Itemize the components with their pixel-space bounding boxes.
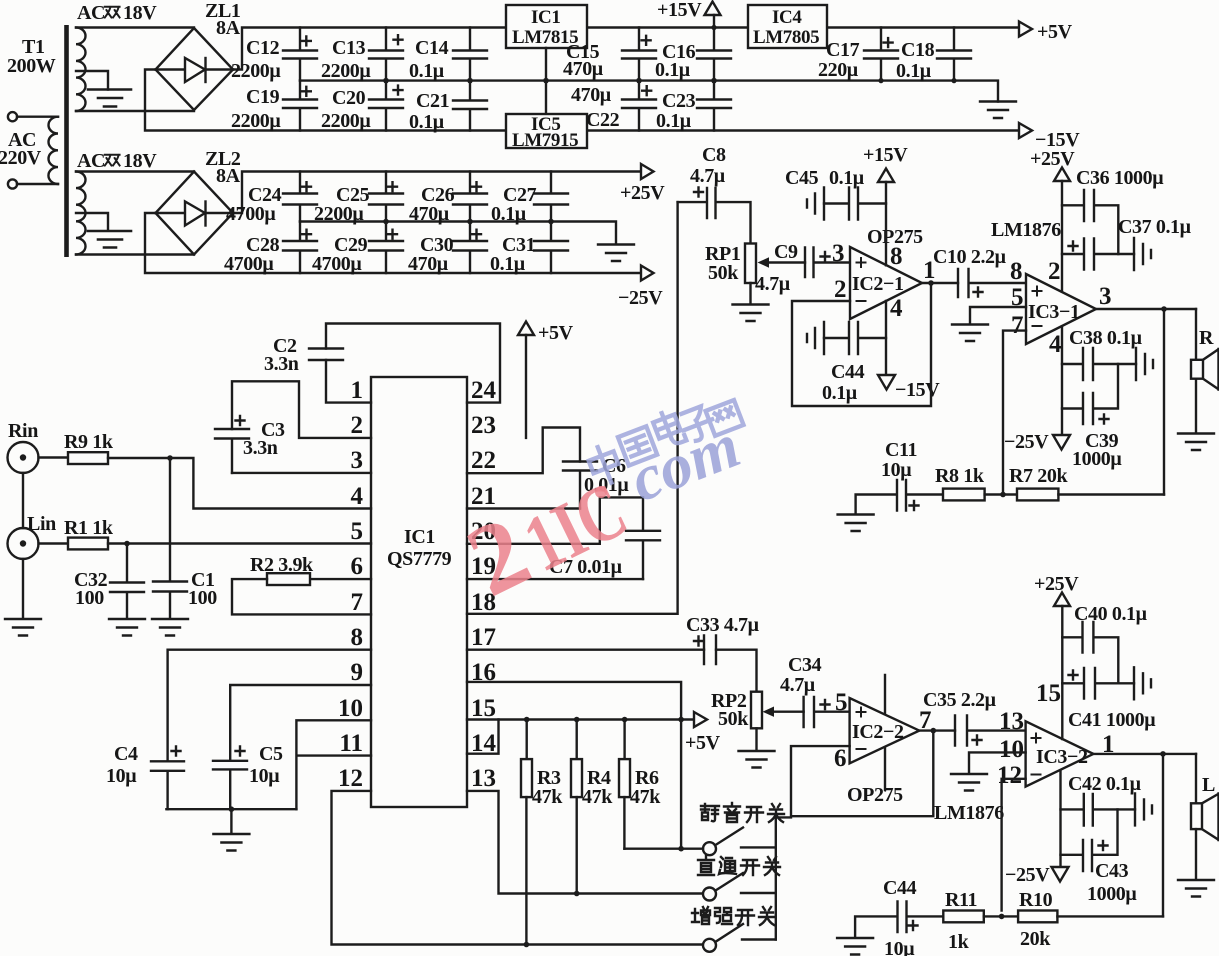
wire pin10 pin11 riser bbox=[296, 720, 371, 809]
svg-text:470μ: 470μ bbox=[563, 58, 604, 80]
svg-text:C41 1000μ: C41 1000μ bbox=[1068, 709, 1156, 731]
svg-text:C17: C17 bbox=[826, 39, 860, 61]
svg-text:R1 1k: R1 1k bbox=[64, 517, 114, 539]
resistor R11 bbox=[943, 889, 984, 953]
capacitor C44 bottom bbox=[855, 877, 943, 956]
svg-text:C38 0.1μ: C38 0.1μ bbox=[1069, 327, 1143, 349]
wire pin8 to C4 bbox=[168, 650, 371, 762]
op-amp IC3-1 LM1876 bbox=[991, 219, 1112, 358]
svg-text:10: 10 bbox=[999, 736, 1024, 763]
IC4 LM7805 bbox=[748, 5, 827, 48]
svg-text:100: 100 bbox=[75, 587, 104, 609]
op-amp U-IC1 QS7779 bbox=[371, 377, 467, 807]
svg-text:11: 11 bbox=[339, 730, 363, 757]
svg-text:12: 12 bbox=[338, 765, 363, 792]
transformer secondary winding 2 bbox=[76, 150, 157, 255]
capacitor C10 bbox=[933, 246, 1026, 297]
svg-text:1k: 1k bbox=[948, 931, 970, 953]
wire pin5 ground IC3-1 bbox=[970, 307, 1026, 324]
capacitor C1 bbox=[153, 458, 217, 619]
svg-text:4.7μ: 4.7μ bbox=[755, 273, 791, 295]
capacitor C28 bbox=[224, 222, 317, 276]
ground center-tap 2 bbox=[76, 213, 131, 248]
pin numbers QS7779 right bbox=[471, 377, 497, 792]
switch S2 direct bbox=[703, 873, 776, 901]
op-amp IC3-2 LM1876 bbox=[934, 708, 1115, 824]
svg-text:3: 3 bbox=[351, 447, 364, 474]
svg-text:C23: C23 bbox=[662, 90, 696, 112]
svg-text:2: 2 bbox=[834, 276, 847, 303]
wire pin1 loop to pin24 bbox=[326, 324, 500, 403]
wire IC2-1 output bbox=[922, 280, 958, 286]
svg-text:−25V: −25V bbox=[1005, 864, 1050, 886]
wire output feedback riser bbox=[1163, 309, 1165, 495]
svg-text:10μ: 10μ bbox=[884, 938, 915, 956]
svg-text:IC2−2: IC2−2 bbox=[852, 721, 904, 743]
svg-text:C18: C18 bbox=[901, 39, 935, 61]
ground center-tap 1 bbox=[76, 71, 131, 107]
power +25V IC3-1 bbox=[1030, 148, 1075, 292]
svg-text:C44: C44 bbox=[831, 361, 865, 383]
capacitor C25 bbox=[314, 172, 403, 226]
capacitor C45 bbox=[785, 167, 886, 220]
svg-text:+15V: +15V bbox=[863, 144, 908, 166]
resistor R10 bbox=[1018, 889, 1057, 950]
svg-text:C12: C12 bbox=[246, 37, 280, 59]
speaker L bbox=[1191, 754, 1219, 879]
capacitor C15 bbox=[563, 28, 656, 81]
capacitor C26 bbox=[409, 172, 487, 226]
ground speaker L bbox=[1178, 880, 1214, 897]
svg-text:0.1μ: 0.1μ bbox=[409, 111, 445, 133]
resistor R3 bbox=[521, 720, 563, 945]
svg-text:220V: 220V bbox=[0, 147, 42, 169]
svg-text:8A: 8A bbox=[216, 165, 241, 187]
svg-text:15: 15 bbox=[471, 695, 496, 722]
power -25V IC3-1 bbox=[1004, 327, 1070, 454]
wire ZL2 - output rail bbox=[145, 213, 641, 273]
ground C11 bbox=[838, 515, 874, 532]
svg-text:+25V: +25V bbox=[1034, 573, 1079, 595]
svg-text:C33 4.7μ: C33 4.7μ bbox=[686, 614, 760, 636]
wire ZL1 + output to top rail bbox=[233, 28, 1019, 70]
wire IC2-2 output bbox=[919, 728, 955, 734]
svg-text:LM7915: LM7915 bbox=[512, 130, 578, 151]
power -25V IC3-2 bbox=[1005, 771, 1069, 886]
svg-text:C9: C9 bbox=[774, 241, 798, 263]
wire R2 to pin7 bbox=[232, 579, 371, 614]
wire R7 to output riser bbox=[1058, 493, 1164, 495]
capacitor C19 bbox=[231, 81, 317, 132]
svg-text:OP275: OP275 bbox=[867, 226, 923, 248]
svg-text:2200μ: 2200μ bbox=[321, 60, 371, 82]
watermark dot bbox=[595, 486, 607, 498]
resistor R1 bbox=[64, 517, 114, 549]
power -15V op-amp bbox=[878, 301, 940, 401]
wire riser to mute line bbox=[680, 720, 682, 849]
wire pin18 riser to C8 bbox=[467, 202, 678, 614]
potentiometer RP1 bbox=[705, 243, 805, 304]
capacitor C16 bbox=[655, 15, 731, 81]
svg-text:C20: C20 bbox=[332, 87, 366, 109]
svg-text:R9 1k: R9 1k bbox=[64, 431, 114, 453]
svg-text:−25V: −25V bbox=[618, 287, 663, 309]
ground mid rail right bbox=[980, 102, 1016, 119]
label boost switch bbox=[692, 907, 775, 925]
power +15V symbol bbox=[657, 0, 721, 21]
svg-text:13: 13 bbox=[471, 765, 496, 792]
label mute switch bbox=[701, 803, 784, 822]
svg-text:C45: C45 bbox=[785, 167, 819, 189]
svg-text:0.1μ: 0.1μ bbox=[656, 110, 692, 132]
svg-text:LM1876: LM1876 bbox=[934, 802, 1004, 824]
svg-text:1000μ: 1000μ bbox=[1072, 448, 1122, 470]
svg-text:IC1: IC1 bbox=[531, 7, 560, 28]
IC1 LM7815 bbox=[506, 5, 587, 114]
svg-text:0.1μ: 0.1μ bbox=[490, 253, 526, 275]
pin numbers QS7779 left bbox=[338, 377, 364, 792]
svg-text:4700μ: 4700μ bbox=[312, 253, 362, 275]
capacitor C6 bbox=[563, 455, 629, 509]
svg-text:IC1: IC1 bbox=[404, 526, 435, 548]
svg-text:QS7779: QS7779 bbox=[387, 548, 452, 570]
svg-text:LM1876: LM1876 bbox=[991, 219, 1061, 241]
capacitor C35 bbox=[923, 689, 1026, 746]
svg-text:C5: C5 bbox=[259, 743, 283, 765]
svg-text:+25V: +25V bbox=[1030, 148, 1075, 170]
wire pin14 stub bbox=[467, 720, 499, 754]
capacitor C30 bbox=[408, 222, 487, 276]
resistor R2 bbox=[250, 554, 371, 585]
ground mid rail 2 bbox=[598, 245, 634, 262]
capacitor C31 bbox=[490, 222, 568, 276]
node Lin jack bbox=[8, 473, 69, 619]
capacitor C33 bbox=[686, 614, 760, 664]
svg-text:10μ: 10μ bbox=[106, 765, 137, 787]
svg-text:6: 6 bbox=[351, 553, 364, 580]
svg-text:470μ: 470μ bbox=[409, 203, 450, 225]
svg-text:8A: 8A bbox=[216, 17, 241, 39]
capacitor C17 bbox=[818, 28, 898, 82]
svg-text:2: 2 bbox=[1048, 258, 1061, 285]
wire pin12 feedback riser bbox=[1002, 779, 1026, 911]
svg-text:22: 22 bbox=[471, 447, 496, 474]
svg-text:6: 6 bbox=[834, 745, 847, 772]
capacitor C38 bbox=[1062, 327, 1153, 380]
node +5V arrow bbox=[1019, 21, 1073, 43]
node Rin jack bbox=[8, 420, 69, 473]
resistor R4 bbox=[571, 720, 613, 894]
svg-text:200W: 200W bbox=[7, 55, 56, 77]
svg-text:18V: 18V bbox=[123, 2, 157, 24]
svg-text:IC2−1: IC2−1 bbox=[852, 273, 904, 295]
svg-text:100: 100 bbox=[188, 587, 217, 609]
capacitor C20 bbox=[321, 81, 403, 132]
svg-text:C43: C43 bbox=[1095, 860, 1129, 882]
svg-text:R7 20k: R7 20k bbox=[1009, 465, 1068, 487]
wire R11 R10 node bbox=[984, 914, 1018, 920]
svg-text:10: 10 bbox=[338, 695, 363, 722]
svg-text:C44: C44 bbox=[883, 877, 917, 899]
svg-text:0.1μ: 0.1μ bbox=[491, 203, 527, 225]
resistor R8 bbox=[935, 465, 985, 500]
svg-text:C42 0.1μ: C42 0.1μ bbox=[1068, 773, 1142, 795]
svg-text:+25V: +25V bbox=[620, 182, 665, 204]
wire ZL2 + output rail bbox=[233, 172, 641, 214]
capacitor C39 bbox=[1062, 364, 1122, 470]
capacitor C2 bbox=[264, 335, 343, 375]
capacitor C41 bbox=[1062, 667, 1156, 731]
wire C4 C5 ground bus bbox=[166, 806, 296, 833]
svg-text:3: 3 bbox=[1099, 283, 1112, 310]
capacitor C29 bbox=[312, 222, 403, 276]
node -25V arrow bbox=[618, 266, 663, 310]
wire R8 R7 node bbox=[985, 492, 1017, 498]
wire pin2 to C3 bbox=[232, 381, 371, 438]
svg-text:50k: 50k bbox=[708, 262, 739, 284]
op-amp IC2-2 bbox=[834, 675, 932, 806]
transformer T1 bbox=[0, 25, 69, 257]
wire pin17 to C33 bbox=[467, 649, 704, 651]
switch S3 boost bbox=[703, 924, 776, 952]
svg-text:20k: 20k bbox=[1020, 928, 1051, 950]
capacitor C3 bbox=[215, 416, 285, 473]
svg-text:0.1μ: 0.1μ bbox=[409, 60, 445, 82]
svg-text:13: 13 bbox=[999, 708, 1024, 735]
svg-text:15: 15 bbox=[1036, 680, 1061, 707]
svg-text:+15V: +15V bbox=[657, 0, 702, 21]
svg-text:5: 5 bbox=[835, 689, 848, 716]
svg-text:+5V: +5V bbox=[538, 322, 574, 344]
svg-text:AC: AC bbox=[77, 150, 105, 172]
wire pin7 feedback riser bbox=[1003, 331, 1026, 495]
svg-text:18V: 18V bbox=[123, 150, 157, 172]
ground C4 C5 bbox=[213, 834, 249, 851]
svg-text:C40 0.1μ: C40 0.1μ bbox=[1074, 603, 1148, 625]
bridge rectifier ZL1 bbox=[156, 0, 241, 110]
wire pin19 bbox=[467, 578, 643, 580]
capacitor C32 bbox=[74, 544, 144, 619]
ground C32 bbox=[109, 619, 145, 636]
node -15V arrow bbox=[1019, 123, 1080, 151]
svg-text:2200μ: 2200μ bbox=[231, 110, 281, 132]
svg-text:R10: R10 bbox=[1019, 889, 1053, 911]
power +15V op-amp bbox=[863, 144, 908, 265]
svg-text:1: 1 bbox=[351, 377, 364, 404]
capacitor C13 bbox=[321, 28, 403, 83]
node +25V arrow bbox=[620, 164, 665, 204]
ground input jacks bbox=[5, 619, 41, 636]
label direct switch bbox=[698, 856, 780, 875]
svg-text:2200μ: 2200μ bbox=[231, 60, 281, 82]
svg-text:47k: 47k bbox=[630, 786, 661, 808]
ground C44 bottom bbox=[837, 938, 873, 955]
svg-text:3.3n: 3.3n bbox=[243, 437, 278, 459]
wire IC3-2 output bbox=[1093, 751, 1196, 757]
wire C33 to RP2 bbox=[716, 650, 757, 692]
wire pin6 feedback IC2-2 bbox=[791, 731, 933, 817]
speaker R bbox=[1191, 309, 1219, 432]
wire pin10 ground IC3-2 bbox=[969, 752, 1026, 773]
svg-text:C4: C4 bbox=[114, 743, 138, 765]
ground RP1 bbox=[733, 305, 769, 322]
ground pin10 bbox=[951, 774, 987, 791]
ground C1 bbox=[152, 619, 188, 636]
capacitor C5 bbox=[213, 743, 283, 809]
svg-text:220μ: 220μ bbox=[818, 59, 859, 81]
svg-text:0.1μ: 0.1μ bbox=[829, 167, 865, 189]
wire pin21 bbox=[467, 507, 580, 509]
capacitor C36 bbox=[1062, 167, 1164, 254]
svg-text:C10 2.2μ: C10 2.2μ bbox=[933, 246, 1007, 268]
svg-text:5: 5 bbox=[351, 518, 364, 545]
wire pin20 to C7 bbox=[467, 497, 643, 543]
svg-text:R8 1k: R8 1k bbox=[935, 465, 985, 487]
svg-text:4.7μ: 4.7μ bbox=[780, 674, 816, 696]
svg-text:C34: C34 bbox=[788, 654, 822, 676]
svg-text:50k: 50k bbox=[718, 708, 749, 730]
capacitor C9 bbox=[755, 240, 850, 295]
wire output feedback riser 2 bbox=[1162, 754, 1164, 917]
svg-text:C8: C8 bbox=[702, 144, 726, 166]
transformer secondary winding 1 bbox=[76, 2, 157, 111]
wire R1 to pin5 bbox=[108, 541, 371, 547]
svg-text:1000μ: 1000μ bbox=[1087, 883, 1137, 905]
svg-text:4.7μ: 4.7μ bbox=[690, 165, 726, 187]
svg-text:C19: C19 bbox=[246, 86, 280, 108]
capacitor C21 bbox=[409, 81, 487, 133]
wire pin13 to direct switch bbox=[467, 791, 703, 896]
capacitor C14 bbox=[409, 28, 487, 83]
power +25V IC3-2 bbox=[1034, 573, 1079, 739]
wire secondary2 to bridge bbox=[76, 172, 194, 255]
resistor R9 bbox=[64, 431, 114, 464]
wire GND mid rail 2 bbox=[300, 219, 616, 244]
svg-text:2200μ: 2200μ bbox=[321, 110, 371, 132]
svg-text:+5V: +5V bbox=[685, 732, 721, 754]
watermark 21IC bbox=[451, 448, 643, 619]
svg-text:C37 0.1μ: C37 0.1μ bbox=[1118, 216, 1192, 238]
svg-text:10μ: 10μ bbox=[881, 459, 912, 481]
svg-text:Rin: Rin bbox=[8, 420, 38, 442]
svg-text:−15V: −15V bbox=[895, 379, 940, 401]
capacitor C18 bbox=[896, 28, 971, 83]
svg-text:4700μ: 4700μ bbox=[224, 253, 274, 275]
svg-text:2200μ: 2200μ bbox=[314, 203, 364, 225]
svg-text:23: 23 bbox=[471, 412, 496, 439]
wire switch riser to IC2-2 feedback bbox=[776, 817, 791, 939]
svg-text:3.3n: 3.3n bbox=[264, 353, 299, 375]
svg-text:L: L bbox=[1202, 774, 1215, 796]
svg-text:IC4: IC4 bbox=[772, 7, 802, 28]
svg-text:7: 7 bbox=[351, 589, 364, 616]
svg-text:C21: C21 bbox=[416, 90, 449, 112]
svg-text:IC3−1: IC3−1 bbox=[1028, 301, 1080, 323]
op-amp IC2-1 bbox=[834, 226, 936, 322]
svg-text:C36 1000μ: C36 1000μ bbox=[1076, 167, 1164, 189]
svg-text:Lin: Lin bbox=[27, 513, 56, 535]
ground speaker R bbox=[1178, 434, 1214, 451]
svg-text:470μ: 470μ bbox=[408, 253, 449, 275]
svg-text:C22: C22 bbox=[586, 109, 620, 131]
ground pin5 bbox=[952, 325, 988, 342]
capacitor C27 bbox=[491, 172, 568, 226]
capacitor C23 bbox=[656, 81, 731, 132]
svg-text:R11: R11 bbox=[945, 889, 977, 911]
node junction dots top rail bbox=[711, 25, 956, 83]
svg-text:4700μ: 4700μ bbox=[226, 203, 276, 225]
svg-text:47k: 47k bbox=[582, 786, 613, 808]
svg-text:R2 3.9k: R2 3.9k bbox=[250, 554, 314, 576]
svg-text:17: 17 bbox=[471, 624, 496, 651]
power +5V pin23 bbox=[518, 322, 574, 438]
svg-text:IC3−2: IC3−2 bbox=[1036, 746, 1088, 768]
capacitor C34 bbox=[780, 654, 850, 727]
wire IC3-1 output bbox=[1096, 306, 1196, 312]
svg-text:R: R bbox=[1199, 327, 1214, 349]
svg-text:AC: AC bbox=[77, 2, 105, 24]
svg-text:8: 8 bbox=[1010, 258, 1023, 285]
potentiometer RP2 bbox=[711, 690, 804, 750]
svg-text:4: 4 bbox=[351, 483, 364, 510]
wire secondary1 to bridge bbox=[76, 28, 194, 112]
svg-text:47k: 47k bbox=[532, 786, 563, 808]
svg-text:C35 2.2μ: C35 2.2μ bbox=[923, 689, 997, 711]
svg-text:4: 4 bbox=[890, 295, 903, 322]
svg-text:C11: C11 bbox=[885, 439, 917, 461]
capacitor C40 bbox=[1062, 603, 1147, 683]
IC5 LM7915 bbox=[506, 114, 587, 151]
svg-text:4: 4 bbox=[1049, 331, 1062, 358]
bridge rectifier ZL2 bbox=[156, 148, 241, 255]
capacitor C42 bbox=[1061, 773, 1153, 826]
wire R9 to pin4 bbox=[108, 455, 371, 508]
resistor R7 bbox=[1009, 465, 1068, 500]
wire GND mid rail bbox=[300, 78, 998, 102]
capacitor C24 bbox=[226, 172, 317, 226]
svg-text:10μ: 10μ bbox=[249, 765, 280, 787]
switch S1 mute bbox=[703, 828, 776, 856]
svg-text:OP275: OP275 bbox=[847, 784, 903, 806]
svg-text:7: 7 bbox=[1011, 312, 1024, 339]
svg-text:24: 24 bbox=[471, 377, 497, 404]
svg-text:C14: C14 bbox=[415, 37, 449, 59]
wire pin12 to boost switch bbox=[332, 791, 703, 947]
svg-text:+5V: +5V bbox=[1037, 21, 1073, 43]
svg-text:2: 2 bbox=[351, 412, 364, 439]
wire IC2-1 feedback loop bbox=[792, 283, 931, 406]
svg-text:−25V: −25V bbox=[1004, 431, 1049, 453]
capacitor C4 bbox=[106, 743, 184, 809]
wire pin3 bbox=[232, 472, 371, 474]
svg-text:470μ: 470μ bbox=[571, 84, 612, 106]
capacitor C44 top bbox=[807, 322, 886, 404]
capacitor C12 bbox=[231, 28, 317, 83]
wire pin16 bbox=[467, 682, 681, 720]
svg-text:3: 3 bbox=[832, 240, 845, 267]
capacitor C8 bbox=[678, 144, 751, 244]
watermark zhongguo dianziwang bbox=[585, 400, 743, 487]
resistor R6 bbox=[619, 720, 661, 849]
wire ZL1 - output to lower rail bbox=[145, 70, 1019, 131]
wire mute line bbox=[624, 846, 703, 852]
svg-text:0.1μ: 0.1μ bbox=[822, 382, 858, 404]
ground RP2 bbox=[739, 751, 775, 768]
svg-text:0.1μ: 0.1μ bbox=[655, 59, 691, 81]
capacitor C43 bbox=[1061, 809, 1138, 905]
node +5V arrow pin15 bbox=[685, 712, 721, 754]
wire R10 to output riser 2 bbox=[1057, 915, 1163, 917]
